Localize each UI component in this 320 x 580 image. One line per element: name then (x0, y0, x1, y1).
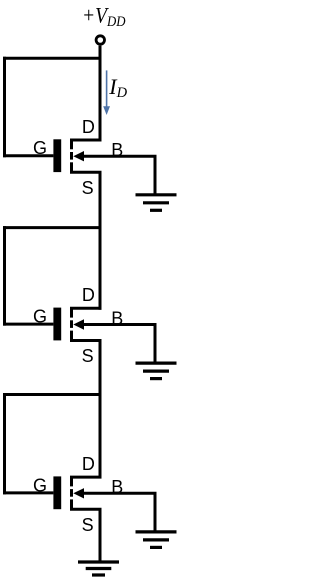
svg-text:D: D (82, 285, 95, 305)
svg-text:S: S (82, 178, 94, 198)
svg-text:G: G (33, 138, 47, 158)
svg-text:G: G (33, 475, 47, 495)
svg-text:B: B (111, 140, 123, 160)
svg-text:G: G (33, 306, 47, 326)
svg-text:B: B (111, 308, 123, 328)
svg-text:+VDD: +VDD (82, 3, 126, 29)
svg-text:ID: ID (108, 74, 127, 101)
svg-text:S: S (82, 346, 94, 366)
svg-text:D: D (82, 117, 95, 137)
svg-text:B: B (111, 477, 123, 497)
svg-text:S: S (82, 515, 94, 535)
svg-text:D: D (82, 454, 95, 474)
